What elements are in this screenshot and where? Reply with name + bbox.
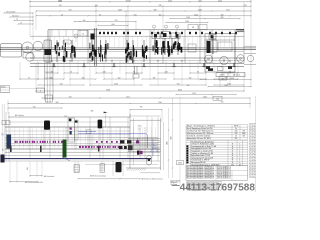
svg-text:305: 305 <box>222 78 225 80</box>
svg-text:18: 18 <box>250 130 252 132</box>
svg-text:18: 18 <box>250 139 252 141</box>
svg-text:18: 18 <box>250 150 252 152</box>
svg-text:2x: 2x <box>235 128 237 130</box>
svg-text:950: 950 <box>235 138 238 140</box>
svg-text:744: 744 <box>59 5 62 7</box>
svg-text:100 mind450: 100 mind450 <box>6 11 15 13</box>
svg-text:7580: 7580 <box>106 89 110 91</box>
svg-text:848: 848 <box>154 10 157 12</box>
svg-text:50: 50 <box>51 71 53 73</box>
svg-text:162: 162 <box>118 77 121 79</box>
svg-text:340: 340 <box>83 20 86 22</box>
svg-text:1898: 1898 <box>171 136 173 140</box>
svg-text:744: 744 <box>60 83 63 85</box>
svg-text:753: 753 <box>33 106 36 108</box>
svg-text:3000: 3000 <box>242 133 246 135</box>
svg-text:1200: 1200 <box>158 102 162 104</box>
svg-text:1 Einlauf m. Rollenbahn L=2: 1 Einlauf m. Rollenbahn L=2060 <box>191 144 214 146</box>
svg-text:2462: 2462 <box>218 0 222 2</box>
svg-text:(T): (T) <box>1 134 4 136</box>
svg-text:2650: 2650 <box>230 78 234 80</box>
svg-text:1017: 1017 <box>226 10 230 12</box>
svg-text:1: 1 <box>239 153 240 155</box>
svg-text:248: 248 <box>165 71 168 73</box>
svg-text:848: 848 <box>56 102 59 104</box>
svg-text:340: 340 <box>82 77 85 79</box>
svg-text:18: 18 <box>250 167 252 169</box>
svg-text:Vakuumpumpe VC 150 4,0: Vakuumpumpe VC 150 4,0 kW <box>191 157 213 159</box>
svg-text:19158: 19158 <box>126 0 131 2</box>
svg-text:1540: 1540 <box>192 93 196 95</box>
svg-text:18: 18 <box>250 153 252 155</box>
svg-text:650: 650 <box>27 167 29 170</box>
svg-text:2: 2 <box>239 148 240 150</box>
svg-text:1: 1 <box>239 155 240 157</box>
svg-text:796: 796 <box>140 107 143 109</box>
svg-text:18: 18 <box>250 170 252 172</box>
svg-text:90: 90 <box>197 71 199 73</box>
svg-text:6: 6 <box>239 162 240 164</box>
svg-text:340: 340 <box>153 77 156 79</box>
svg-text:2060: 2060 <box>114 83 118 85</box>
svg-text:12: 12 <box>235 136 237 138</box>
svg-text:2060: 2060 <box>58 0 62 2</box>
svg-text:240: 240 <box>235 133 238 135</box>
svg-text:3000: 3000 <box>198 0 202 2</box>
svg-text:2462: 2462 <box>203 96 207 98</box>
svg-text:kg: kg <box>139 128 141 130</box>
svg-text:600: 600 <box>112 24 115 26</box>
svg-text:575: 575 <box>242 136 245 138</box>
svg-text:18: 18 <box>250 164 252 166</box>
svg-text:745: 745 <box>216 98 219 100</box>
svg-text:162: 162 <box>189 77 192 79</box>
svg-text:48: 48 <box>239 164 241 166</box>
svg-text:745: 745 <box>221 102 224 104</box>
svg-text:18: 18 <box>250 136 252 138</box>
svg-text:75: 75 <box>28 77 30 79</box>
svg-text:18: 18 <box>250 144 252 146</box>
svg-text:1: 1 <box>239 160 240 162</box>
svg-text:655: 655 <box>157 149 159 152</box>
svg-text:90: 90 <box>133 71 135 73</box>
svg-text:18: 18 <box>250 147 252 149</box>
svg-text:753: 753 <box>69 10 72 12</box>
svg-text:9050: 9050 <box>178 163 182 165</box>
svg-text:1: 1 <box>239 151 240 153</box>
svg-text:345 mind: 345 mind <box>12 15 19 17</box>
svg-text:550: 550 <box>187 85 190 87</box>
svg-text:162: 162 <box>159 14 162 16</box>
svg-text:1017: 1017 <box>126 96 130 98</box>
svg-text:2: 2 <box>239 157 240 159</box>
svg-text:1000: 1000 <box>167 141 169 145</box>
svg-text:750: 750 <box>134 14 137 16</box>
svg-text:3000: 3000 <box>168 0 172 2</box>
svg-text:2: 2 <box>239 146 240 148</box>
svg-text:75: 75 <box>16 19 18 21</box>
svg-text:240: 240 <box>235 130 238 132</box>
svg-text:18: 18 <box>250 159 252 161</box>
svg-text:1485: 1485 <box>224 85 228 87</box>
svg-text:575: 575 <box>242 130 245 132</box>
svg-text:340: 340 <box>221 14 224 16</box>
svg-text:50: 50 <box>61 14 63 16</box>
svg-text:V8: V8 <box>192 27 194 29</box>
svg-text:345: 345 <box>3 148 5 151</box>
svg-text:18: 18 <box>250 127 252 129</box>
svg-text:980: 980 <box>221 17 224 19</box>
svg-text:5: 5 <box>76 36 77 38</box>
svg-text:55: 55 <box>20 22 22 24</box>
svg-text:753: 753 <box>69 96 72 98</box>
svg-text:1200: 1200 <box>185 21 189 23</box>
svg-text:12: 12 <box>82 34 84 36</box>
svg-text:19158: 19158 <box>234 125 239 127</box>
svg-text:1540: 1540 <box>186 17 190 19</box>
svg-text:848: 848 <box>91 111 94 113</box>
svg-text:1: 1 <box>239 144 240 146</box>
svg-text:8420: 8420 <box>178 89 182 91</box>
svg-text:248: 248 <box>103 71 106 73</box>
svg-text:744: 744 <box>177 83 180 85</box>
svg-text:18: 18 <box>250 133 252 135</box>
svg-text:18: 18 <box>250 173 252 175</box>
svg-text:18: 18 <box>250 176 252 178</box>
svg-text:18: 18 <box>250 125 252 127</box>
svg-text:1550: 1550 <box>138 126 142 128</box>
svg-text:D4500: D4500 <box>1 87 6 89</box>
svg-text:Maschinenfabrik Holzbearb. Gmb: Maschinenfabrik Holzbearb. GmbH ProfiLin… <box>187 178 215 180</box>
svg-text:162: 162 <box>50 77 53 79</box>
svg-text:18: 18 <box>250 162 252 164</box>
svg-text:2462: 2462 <box>118 10 122 12</box>
svg-text:248: 248 <box>159 5 162 7</box>
svg-text:44113-17697588: 44113-17697588 <box>180 182 256 192</box>
svg-text:50: 50 <box>229 71 231 73</box>
svg-text:750: 750 <box>115 20 118 22</box>
svg-text:8: 8 <box>67 42 68 44</box>
svg-text:90: 90 <box>70 71 72 73</box>
svg-text:90: 90 <box>99 14 101 16</box>
svg-text:1200: 1200 <box>194 14 198 16</box>
svg-text:18: 18 <box>250 142 252 144</box>
svg-text:18: 18 <box>250 156 252 158</box>
